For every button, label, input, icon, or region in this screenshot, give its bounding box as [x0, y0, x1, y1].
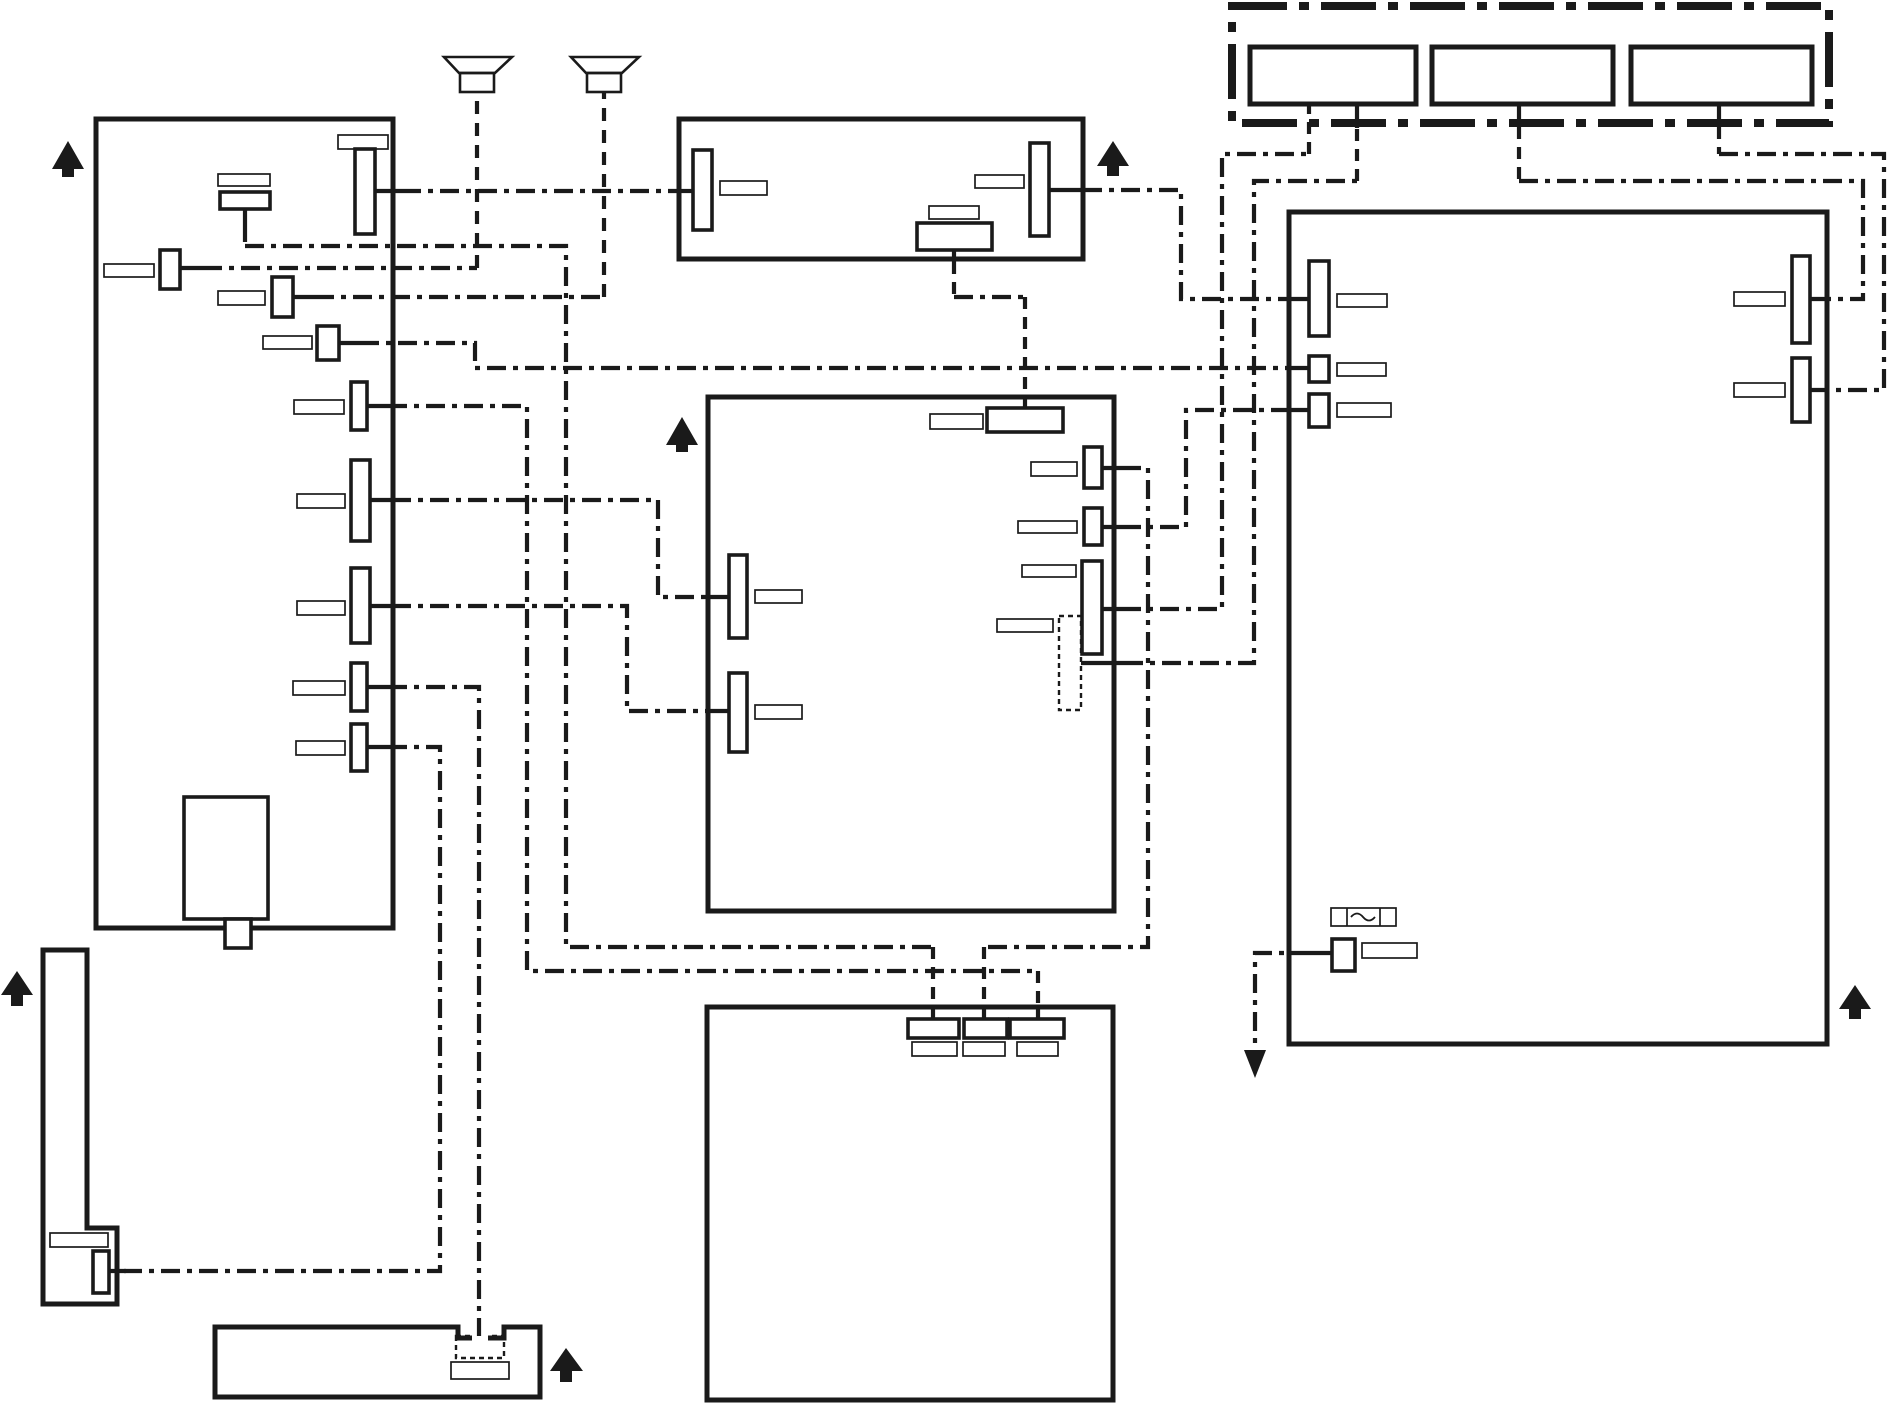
connector CN406 (P4 fuse area)	[1332, 939, 1355, 971]
connector CN201 (P2 left)	[693, 150, 712, 230]
arrow A5 (beside P6)	[550, 1348, 583, 1382]
board P5 (bottom middle PCB)	[707, 1007, 1113, 1400]
wire net17 B2 to CN404 dash-dot run	[1519, 181, 1863, 299]
speaker SP2 body	[587, 73, 621, 92]
wire net15 CN306 solid stub	[1102, 607, 1122, 611]
board P7 (L-shaped PCB)	[43, 950, 117, 1304]
wire net16 B1 riser solid	[1355, 104, 1359, 128]
connector CN107 (P1)	[351, 568, 370, 643]
wire net3 SP1 drop dashed	[475, 92, 479, 268]
label CN202	[975, 175, 1024, 188]
wire net7 CN106 to CN302 dash-dot run	[392, 500, 708, 597]
block B3 (inside module M1)	[1631, 47, 1812, 104]
notch floor gap for wire pass-through	[472, 1335, 488, 1342]
wire net3 CN102 solid stub	[180, 266, 203, 270]
label CN307	[997, 619, 1053, 632]
label CN305	[1018, 521, 1077, 533]
wire net10 CN109 solid stub	[367, 745, 388, 749]
arrow A3 (beside P3)	[666, 417, 698, 452]
label CN701	[50, 1233, 108, 1247]
connector CN202 (P2 right)	[1030, 143, 1049, 236]
label CN404	[1734, 292, 1785, 306]
wire net10 CN701 entry stub	[109, 1269, 126, 1273]
connector CN106 (P1)	[351, 460, 370, 541]
connector CN501 (P5 top group 1)	[908, 1019, 959, 1038]
board P6 (bottom-left notched PCB)	[215, 1327, 540, 1397]
connector CN101 (P1 top right)	[355, 149, 375, 234]
component IC101 (P1 stacked block)	[220, 192, 270, 209]
wire net18 CN405 entry stub	[1810, 388, 1827, 392]
connector CN103 (P1)	[272, 277, 293, 317]
connector CN503 (P5 top group 3)	[1010, 1019, 1064, 1038]
label CN108	[293, 681, 345, 695]
wire net2 IC101 drop solid	[243, 209, 247, 230]
wire net8 CN107 solid stub	[370, 604, 392, 608]
wire net13 CN304 solid stub	[1102, 466, 1122, 470]
label CN101	[338, 135, 388, 149]
connector CN307 (P3 dotted connector)	[1059, 616, 1081, 710]
label CN306	[1022, 565, 1076, 577]
wire net13 CN502 entry stub	[982, 1005, 986, 1019]
component T101 (P1 transformer block)	[184, 797, 268, 919]
wire net2 CN501 riser dashed	[931, 947, 935, 1007]
label CN405	[1734, 383, 1785, 397]
board P1 (left main PCB)	[96, 119, 393, 928]
wire net6 CN503 entry stub	[1036, 1005, 1040, 1019]
wire net17 B2 drop dashed	[1517, 127, 1521, 181]
label CN403	[1337, 403, 1391, 417]
fuse F401 left cap divider	[1346, 908, 1348, 926]
wire net18 B3 drop dashed	[1717, 127, 1721, 154]
label CN104	[263, 336, 312, 349]
wire net15 CN306 to B1 dash-dot run	[1122, 154, 1309, 609]
wire net5 CN104 to CN402 dash-dot run	[360, 343, 1289, 368]
wire net10 CN109 to CN701 dash-dot run	[124, 747, 440, 1271]
connector CN502 (P5 top group 2)	[964, 1019, 1007, 1038]
wire net8 CN303 entry stub	[708, 709, 729, 713]
label CN203	[929, 206, 979, 219]
arrow A4 (beside P2)	[1097, 141, 1129, 176]
label CN402	[1337, 363, 1386, 376]
label CN106	[297, 494, 345, 508]
block B2 (inside module M1)	[1432, 47, 1613, 104]
wire net11 CN203 drop dashed	[952, 262, 956, 297]
wire net9 CN108 solid stub	[367, 685, 388, 689]
connector CN403 (P4 left 3)	[1309, 394, 1329, 427]
fuse F401 body	[1331, 908, 1396, 926]
wire net9 CN108 to CN601 dash-dot run	[388, 687, 479, 1336]
wire net2 IC101 drop dashed	[243, 230, 247, 244]
wire net12 CN202 to CN401 dash-dot run	[1083, 190, 1289, 299]
connector CN301 (P3 top)	[987, 408, 1063, 432]
connector CN405 (P4 right 2)	[1792, 358, 1810, 422]
wire net4 CN103 solid stub	[293, 295, 315, 299]
module M1 (top-right dash-dot enclosure)	[1232, 6, 1829, 123]
label CN501	[912, 1042, 957, 1056]
wire net12 CN401 entry stub	[1289, 297, 1309, 301]
wire net1 CN201 entry stub	[679, 189, 693, 193]
label CN109	[296, 741, 345, 755]
arrow A7 (net19 down arrowhead)	[1244, 1050, 1266, 1078]
wire net1 CN101 to CN201 dash-dot run	[402, 189, 679, 193]
wire net11 CN203 drop solid	[952, 250, 956, 262]
wire net16 B1 riser dashed	[1355, 126, 1359, 181]
label IC101	[218, 174, 270, 186]
connector CN306 (P3 right tall)	[1082, 561, 1102, 654]
label CN102	[104, 264, 154, 277]
wire net16 CN307 to B1 dash-dot run	[1124, 181, 1357, 663]
board P4 (right tall PCB)	[1289, 212, 1827, 1044]
label CN105	[294, 400, 344, 414]
wire net13 CN304 to CN502 dash-dot run	[984, 468, 1148, 947]
speaker SP2 horn	[571, 57, 639, 73]
label CN302	[755, 590, 802, 603]
block B1 (inside module M1)	[1250, 47, 1416, 104]
tab (P1 bottom mounting tab)	[225, 919, 251, 948]
label CN401	[1337, 294, 1387, 307]
connector CN302 (P3 left upper)	[729, 555, 747, 638]
connector CN305 (P3 right 2)	[1084, 508, 1102, 545]
label CN103	[218, 291, 265, 305]
connector CN109 (P1)	[351, 724, 367, 771]
wire net12 CN202 solid stub	[1049, 188, 1083, 192]
wire net6 CN105 to CN503 dash-dot run	[388, 406, 1038, 971]
label CN406	[1362, 943, 1417, 958]
label CN201	[720, 181, 767, 195]
wire net11 jog to CN301 dash-dot	[954, 295, 1025, 299]
wire net18 B3 to CN405 dash-dot run	[1719, 154, 1884, 390]
label CN601	[451, 1362, 509, 1379]
connector CN108 (P1)	[351, 663, 367, 711]
wire net17 CN404 entry stub	[1810, 297, 1827, 301]
connector CN601 (P6 dotted connector)	[456, 1336, 504, 1358]
wire net2 IC101 to CN501 dash-dot run	[245, 246, 933, 947]
label CN502	[963, 1042, 1005, 1056]
speaker SP1 body	[460, 73, 494, 92]
wire net15 B1 riser dashed	[1307, 104, 1311, 154]
wire net14 CN403 entry stub	[1289, 408, 1309, 412]
wire net5 CN104 solid stub	[339, 341, 360, 345]
board P3 (middle PCB)	[708, 397, 1114, 911]
fuse F401 right cap divider	[1379, 908, 1381, 926]
speaker SP1 horn	[444, 57, 512, 73]
wire net14 CN305 solid stub	[1102, 525, 1122, 529]
wire net14 CN305 to CN403 dash-dot run	[1122, 410, 1289, 527]
wire net6 CN105 solid stub	[367, 404, 388, 408]
label CN503	[1017, 1042, 1058, 1056]
wire net8 CN107 to CN303 dash-dot run	[392, 606, 708, 711]
connector CN304 (P3 right 1)	[1084, 447, 1102, 488]
connector CN402 (P4 left 2)	[1309, 356, 1329, 382]
connector CN701 (P7 bottom)	[93, 1251, 109, 1293]
connector CN104 (P1)	[317, 326, 339, 360]
fuse F401 sine symbol	[1351, 914, 1375, 921]
wire net19 CN406 solid stub	[1310, 951, 1332, 955]
label CN107	[297, 601, 345, 615]
wire net3 CN102 to SP1 dash-dot run	[203, 266, 477, 270]
connector CN401 (P4 left 1)	[1309, 261, 1329, 336]
wire net1 CN101 to CN201 solid stub	[375, 189, 402, 193]
connector CN102 (P1)	[160, 250, 180, 289]
wire net7 CN302 entry stub	[708, 595, 729, 599]
wire net11 CN301 riser dashed	[1023, 297, 1027, 408]
label CN303	[755, 705, 802, 719]
wire net2 CN501 entry stub	[931, 1005, 935, 1019]
connector CN105 (P1)	[351, 382, 367, 430]
wire net5 CN402 entry stub	[1289, 366, 1309, 370]
connector CN303 (P3 left lower)	[729, 673, 747, 752]
wire net18 B3 drop solid	[1717, 104, 1721, 127]
wire net4 SP2 drop dashed	[602, 92, 606, 297]
connector CN203 (P2 bottom)	[917, 223, 992, 250]
label CN304	[1031, 462, 1077, 476]
arrow A1 (beside P1)	[52, 141, 84, 177]
label CN301	[930, 414, 983, 429]
connector CN404 (P4 right 1)	[1792, 256, 1810, 343]
wire net13 CN502 riser dashed	[982, 947, 986, 1007]
arrow A6 (beside P4)	[1839, 985, 1871, 1019]
board P2 (top middle PCB)	[679, 119, 1083, 259]
arrow A2 (beside P7)	[1, 971, 33, 1006]
wire net6 CN503 riser dashed	[1036, 971, 1040, 1007]
wire net7 CN106 solid stub	[370, 498, 392, 502]
wire net19 CN406 to arrow dash-dot run	[1255, 953, 1310, 1050]
wire net4 CN103 to SP2 dash-dot run	[315, 295, 604, 299]
wire net16 CN307 solid stub	[1081, 661, 1124, 665]
wire net17 B2 drop solid	[1517, 104, 1521, 127]
